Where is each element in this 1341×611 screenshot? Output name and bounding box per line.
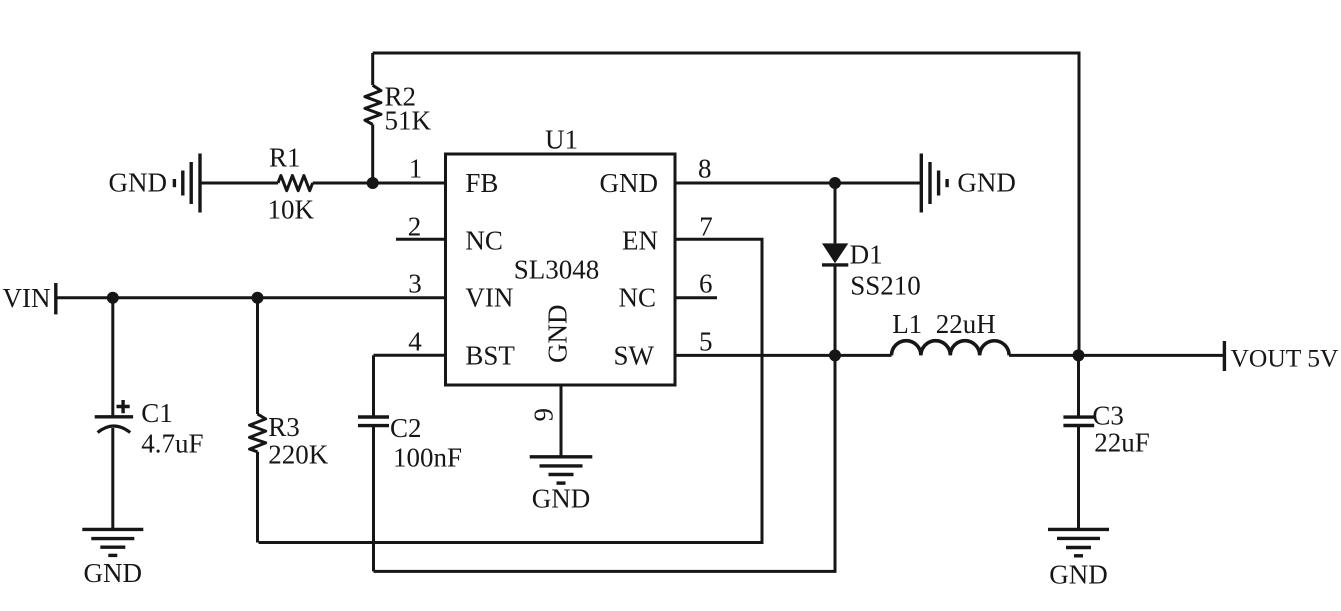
svg-text:220K: 220K [268,440,329,470]
svg-text:VOUT 5V: VOUT 5V [1231,344,1339,373]
diode D1 [822,183,848,355]
svg-text:7: 7 [699,212,713,242]
svg-text:1: 1 [409,154,423,184]
svg-text:FB: FB [465,168,498,198]
svg-text:U1: U1 [545,125,578,155]
wire SW net [675,354,892,357]
svg-text:9: 9 [529,408,559,422]
wire VIN net [56,296,446,299]
svg-text:4: 4 [408,326,422,356]
svg-text:GND: GND [1049,559,1108,589]
svg-text:100nF: 100nF [393,443,462,473]
svg-text:SL3048: SL3048 [514,255,600,285]
svg-text:GND: GND [109,168,168,198]
svg-text:3: 3 [408,269,422,299]
capacitor C1 [95,298,133,530]
svg-text:GND: GND [600,168,659,198]
node FB junction [367,177,379,189]
svg-text:VIN: VIN [3,283,51,313]
wire C2 to SW net [374,355,836,571]
wire top feedback loop [373,53,1079,355]
node GND/D1 junction [829,177,841,189]
inductor L1 [892,341,1010,356]
ground (left, at R1) [174,154,200,213]
terminal VOUT [1223,341,1226,371]
svg-text:GND: GND [532,484,591,514]
svg-text:R1: R1 [269,143,301,173]
svg-text:C3: C3 [1092,400,1124,430]
ground (right, at pin 8) [921,154,947,213]
resistor R3 [250,298,266,543]
node VIN/C1 junction [107,292,119,304]
svg-text:51K: 51K [385,106,432,136]
svg-text:C1: C1 [141,398,173,428]
svg-text:GND: GND [84,558,143,588]
wire pin 9 [560,385,563,457]
wire pin 8 GND net [675,182,921,185]
wire pin 2 stub [396,238,446,241]
svg-text:VIN: VIN [465,283,513,313]
svg-text:C2: C2 [390,413,422,443]
svg-text:BST: BST [465,340,515,370]
svg-text:2: 2 [408,212,422,242]
node VOUT junction [1073,349,1085,361]
ground (C1) [82,529,143,555]
ground (pin 9) [530,457,593,483]
svg-text:22uH: 22uH [936,309,996,339]
capacitor C2 [358,355,389,571]
svg-text:8: 8 [698,154,712,184]
svg-text:GND: GND [957,168,1016,198]
svg-text:10K: 10K [268,195,315,225]
wire L1 to VOUT [1009,354,1224,357]
wire EN net [259,239,763,542]
resistor R1 [278,176,313,191]
svg-text:NC: NC [465,226,503,256]
wire pin 4 BST [374,354,446,357]
terminal VIN [54,283,57,314]
wire FB net [200,182,278,185]
node SW junction [829,349,841,361]
wire pin 6 stub [675,296,717,299]
svg-text:R3: R3 [268,412,300,442]
svg-text:GND: GND [543,305,573,364]
svg-text:SS210: SS210 [850,271,921,301]
svg-text:6: 6 [699,269,713,299]
resistor R2 [365,53,381,183]
chip U1 body [446,154,676,385]
svg-text:EN: EN [622,226,658,256]
svg-text:22uF: 22uF [1094,428,1150,458]
svg-text:SW: SW [614,340,655,370]
svg-text:NC: NC [618,283,656,313]
wire pin 1 [313,182,446,185]
svg-text:5: 5 [699,326,713,356]
node VIN/R3 junction [252,292,264,304]
ground (C3) [1048,529,1109,555]
capacitor C3 [1063,355,1094,529]
svg-text:L1: L1 [892,309,922,339]
svg-text:D1: D1 [850,240,883,270]
svg-text:4.7uF: 4.7uF [141,429,203,459]
